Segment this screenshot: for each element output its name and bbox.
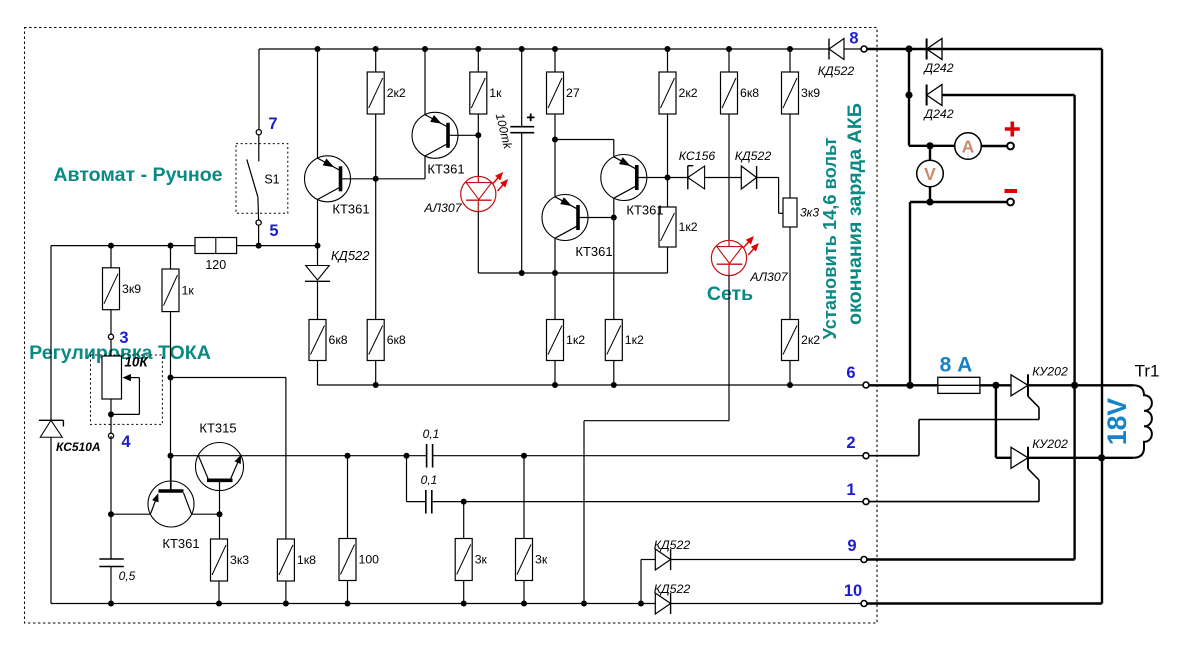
- wire cap to mid bus: [521, 133, 523, 273]
- svg-text:КД522: КД522: [818, 64, 855, 78]
- junction: [168, 375, 174, 381]
- node 9 terminal: [861, 557, 867, 563]
- wire minus rail down to fuse row: [909, 202, 911, 385]
- junction: [581, 601, 587, 607]
- node 4 terminal: [108, 433, 113, 438]
- wire LED to ground jog: [728, 276, 730, 421]
- junction: [926, 198, 933, 205]
- wire down to lower cap: [406, 456, 408, 502]
- svg-text:КТ361: КТ361: [626, 203, 663, 218]
- svg-text:7: 7: [268, 115, 277, 133]
- wire mid bus: [478, 272, 667, 274]
- svg-text:8: 8: [849, 30, 858, 48]
- LED АЛ307 charge indicator: [461, 176, 496, 211]
- junction: [345, 453, 351, 459]
- wire thyristor 2 cathode to transformer bottom: [1028, 457, 1133, 459]
- wire lower cap to terminal 1: [432, 501, 863, 503]
- resistor 1к2 mid: [667, 178, 669, 208]
- wire terminal 8 to rectifier node: [867, 48, 1102, 50]
- junction: [315, 46, 321, 52]
- junction: [1098, 454, 1105, 461]
- svg-text:2к2: 2к2: [679, 86, 698, 100]
- svg-text:5: 5: [269, 222, 278, 240]
- capacitor 100mk polarized: [510, 126, 534, 128]
- wire top rail to terminal 10: [1101, 49, 1103, 604]
- node 10 terminal: [861, 601, 867, 607]
- svg-text:КУ202: КУ202: [1032, 437, 1068, 451]
- junction: [552, 270, 558, 276]
- wire 1к to Q2 base junction: [477, 114, 479, 135]
- junction: [926, 142, 933, 149]
- potentiometer 10К: [91, 355, 163, 424]
- wire gate 1 to terminal 2: [919, 419, 1039, 421]
- resistor 3к9: [103, 268, 120, 310]
- junction: [217, 511, 223, 517]
- junction: [521, 453, 527, 459]
- junction: [108, 601, 114, 607]
- svg-text:2: 2: [846, 434, 855, 452]
- svg-text:КТ315: КТ315: [199, 421, 236, 436]
- wire cap to terminal 2: [433, 455, 863, 457]
- wire Q2 collector elbow: [376, 178, 425, 180]
- junction: [638, 601, 644, 607]
- svg-text:2к2: 2к2: [801, 333, 820, 347]
- svg-text:3к: 3к: [535, 553, 548, 567]
- wire top bus to terminal 8: [844, 48, 863, 50]
- wire 1к junction to 1к8 column: [171, 377, 286, 379]
- junction: [373, 46, 379, 52]
- junction: [905, 91, 912, 98]
- junction: [665, 46, 671, 52]
- svg-text:100: 100: [359, 553, 380, 567]
- junction: [992, 382, 999, 389]
- junction: [726, 46, 732, 52]
- wire node 5 down to row wire: [258, 225, 260, 245]
- thyristor КУ202 upper: [1011, 375, 1028, 396]
- wire top supply bus: [259, 48, 829, 50]
- switch S1: [236, 144, 288, 214]
- resistor 3к second: [523, 456, 525, 539]
- zener КС156: [687, 166, 689, 190]
- junction: [283, 601, 289, 607]
- resistor 120: [195, 238, 237, 254]
- transformer Tr1 secondary winding: [1133, 385, 1152, 458]
- svg-text:1к2: 1к2: [566, 333, 585, 347]
- transistor Q4 КТ361: [601, 155, 647, 201]
- junction: [905, 45, 912, 52]
- svg-text:Установить 14,6 вольт: Установить 14,6 вольт: [819, 137, 840, 339]
- node 3 terminal: [108, 334, 113, 339]
- capacitor C 0,5: [110, 514, 112, 559]
- wire Q1 emitter down: [317, 200, 319, 266]
- junction: [906, 382, 913, 389]
- svg-text:КС510А: КС510А: [56, 440, 101, 454]
- junction: [461, 601, 467, 607]
- wire to 1к: [170, 246, 172, 269]
- svg-text:3: 3: [119, 329, 128, 347]
- junction: [519, 46, 525, 52]
- svg-text:АЛ307: АЛ307: [423, 201, 462, 215]
- trimmer 3к3: [783, 198, 797, 227]
- node 5 terminal: [256, 220, 261, 225]
- svg-text:КТ361: КТ361: [427, 162, 464, 177]
- svg-text:2к2: 2к2: [387, 86, 406, 100]
- svg-text:0,5: 0,5: [119, 569, 136, 583]
- capacitor C 0,1 lower: [425, 490, 427, 514]
- wire rail to terminal 9: [1073, 385, 1075, 559]
- wire 120 to switch junction: [237, 245, 318, 247]
- svg-text:6к8: 6к8: [329, 333, 348, 347]
- svg-text:18V: 18V: [1102, 398, 1132, 445]
- svg-text:КД522: КД522: [735, 149, 772, 163]
- junction: [519, 270, 525, 276]
- svg-text:4: 4: [121, 433, 131, 451]
- node 2 terminal: [863, 453, 869, 459]
- svg-text:КТ361: КТ361: [332, 202, 369, 217]
- wire to transformer top: [1075, 384, 1133, 386]
- transistor Q2 КТ361: [412, 112, 458, 158]
- resistor 1к: [162, 269, 179, 312]
- junction: [373, 382, 379, 388]
- resistor 1к second: [477, 49, 479, 72]
- wire terminal 6 bus: [318, 384, 864, 386]
- svg-text:S1: S1: [264, 173, 279, 187]
- junction: [108, 511, 114, 517]
- wire cathode node down to ammeter row: [908, 95, 910, 146]
- svg-text:КД522: КД522: [654, 582, 691, 596]
- wire Q5 collector to КТ315 base: [192, 513, 220, 515]
- junction: [422, 46, 428, 52]
- wire 6к8 to bus: [317, 361, 319, 386]
- wire 27 to junction: [554, 114, 556, 140]
- svg-text:КС156: КС156: [679, 149, 716, 163]
- junction: [1071, 382, 1078, 389]
- wire 3к9 to node 3: [110, 310, 112, 334]
- svg-text:6к8: 6к8: [387, 333, 406, 347]
- svg-text:КТ361: КТ361: [162, 536, 199, 551]
- wire 2к2 to bus 6: [789, 361, 791, 386]
- svg-text:1к8: 1к8: [297, 553, 316, 567]
- svg-text:3к3: 3к3: [800, 206, 819, 220]
- resistor 1к2 lower second: [605, 320, 622, 361]
- transistor Q1 КТ361: [305, 156, 351, 202]
- wire rectifier vertical: [908, 49, 910, 95]
- resistor 6к8 first: [309, 320, 326, 361]
- wire terminal 2 row: [407, 455, 427, 457]
- wire 27 junction down to Q3: [554, 140, 556, 197]
- minus output wire: [910, 201, 1007, 203]
- svg-text:120: 120: [205, 258, 226, 272]
- svg-text:3к9: 3к9: [122, 282, 141, 296]
- thyristor КУ202 lower: [1011, 447, 1028, 468]
- svg-text:1: 1: [846, 481, 855, 499]
- junction: [552, 382, 558, 388]
- minus output terminal: [1007, 199, 1014, 206]
- wire 3к9 to trimmer: [789, 114, 791, 198]
- junction: [552, 137, 558, 143]
- junction: [552, 46, 558, 52]
- svg-text:1к2: 1к2: [679, 220, 698, 234]
- wire gate 2 to terminal 1: [869, 501, 1039, 503]
- node 6 terminal: [863, 382, 869, 388]
- transistor Q3 КТ361: [542, 195, 588, 241]
- svg-text:1к: 1к: [489, 86, 502, 100]
- svg-text:окончания заряда АКБ: окончания заряда АКБ: [844, 103, 866, 325]
- svg-text:КД522: КД522: [654, 538, 691, 552]
- svg-text:3к3: 3к3: [230, 553, 249, 567]
- wire Q4 rail down to 1к2: [613, 198, 615, 319]
- wire diode to terminal 9: [671, 559, 861, 561]
- svg-text:9: 9: [847, 537, 856, 555]
- junction: [108, 411, 114, 417]
- plus output terminal: [1007, 143, 1014, 150]
- wire pot to wiper junction: [110, 399, 112, 414]
- wire left row: [51, 245, 195, 247]
- junction: [665, 175, 671, 181]
- wire 1к2 to mid bus: [667, 247, 669, 273]
- wire 2к2 to diode row junction: [667, 114, 669, 178]
- wire 6к8 down to LED: [728, 114, 730, 241]
- svg-text:Сеть: Сеть: [707, 283, 753, 305]
- wire to node 4: [110, 414, 112, 433]
- svg-text:V: V: [924, 164, 936, 184]
- svg-text:3к9: 3к9: [801, 86, 820, 100]
- wire switch to node 5: [257, 197, 260, 220]
- svg-text:КУ202: КУ202: [1032, 365, 1068, 379]
- resistor 3к3: [211, 539, 228, 581]
- diode КД522 at terminal 8: [829, 39, 844, 60]
- svg-text:1к: 1к: [182, 283, 195, 297]
- svg-text:27: 27: [566, 86, 580, 100]
- wire diode to 6к8: [317, 281, 319, 319]
- junction: [168, 243, 174, 249]
- wire bus to cap: [521, 49, 523, 127]
- diode Д242 lower: [927, 85, 942, 106]
- wire node 3 to potentiometer: [110, 340, 112, 356]
- wire thyristor 1 cathode to rail: [1028, 384, 1075, 386]
- junction: [475, 132, 481, 138]
- resistor 27: [554, 49, 556, 72]
- wire left column down: [50, 246, 52, 421]
- svg-text:Автомат - Ручное: Автомат - Ручное: [53, 164, 222, 186]
- wire КТ315 base junction to 3к3: [219, 514, 221, 539]
- svg-text:КТ361: КТ361: [575, 244, 612, 259]
- junction: [611, 215, 617, 221]
- resistor 2к2 second: [667, 49, 669, 72]
- voltmeter V: [917, 160, 944, 187]
- wire Q3 emitter to mid bus: [554, 238, 556, 273]
- svg-text:1к2: 1к2: [625, 333, 644, 347]
- wire zener to bottom bus: [50, 437, 52, 603]
- wire fuse to thyristor node: [980, 384, 1011, 386]
- wire Д242 lower to right rail: [942, 94, 1075, 96]
- dashed enclosure border of control unit: [25, 28, 878, 624]
- junction: [216, 601, 222, 607]
- svg-text:Д242: Д242: [922, 61, 953, 75]
- transistor Q5 КТ361: [148, 481, 194, 527]
- resistor 3к9 top: [789, 49, 791, 72]
- zener diode КС510А: [39, 419, 64, 421]
- wire node 4 column to Q5 emitter: [110, 436, 112, 514]
- node 8 terminal: [861, 46, 867, 52]
- wire diode to terminal 10: [671, 603, 861, 605]
- diode Д242 upper: [927, 39, 942, 60]
- svg-text:0,1: 0,1: [423, 427, 440, 441]
- resistor 100: [347, 456, 349, 539]
- wire bottom ground bus: [51, 603, 655, 605]
- wire LED to mid bus: [477, 212, 479, 274]
- ammeter A: [955, 133, 982, 160]
- wire terminal 6 to fuse: [869, 384, 938, 386]
- wire 1к down to T-junctions: [170, 312, 172, 491]
- svg-text:АЛ307: АЛ307: [749, 270, 788, 284]
- svg-text:3к: 3к: [475, 553, 488, 567]
- junction: [404, 453, 410, 459]
- svg-text:10: 10: [844, 582, 862, 600]
- svg-text:Tr1: Tr1: [1135, 362, 1160, 381]
- diode КД522 terminal 10: [655, 593, 670, 614]
- diode КД522 to ground leg: [306, 266, 330, 281]
- resistor 2к2 first: [375, 49, 377, 72]
- junction: [461, 499, 467, 505]
- svg-text:КД522: КД522: [331, 248, 370, 263]
- junction: [373, 176, 379, 182]
- svg-text:А: А: [962, 137, 975, 157]
- wire trimmer to 2к2: [789, 227, 791, 320]
- wire switch column from top bus: [258, 49, 260, 130]
- svg-text:6к8: 6к8: [740, 86, 759, 100]
- junction: [787, 382, 793, 388]
- wire between diodes: [705, 177, 742, 179]
- junction: [521, 601, 527, 607]
- junction: [168, 453, 174, 459]
- svg-text:0,1: 0,1: [421, 473, 438, 487]
- junction: [475, 46, 481, 52]
- diode КД522 row: [741, 166, 756, 189]
- svg-text:Д242: Д242: [922, 107, 953, 121]
- node 7 terminal: [256, 130, 261, 135]
- resistor 2к2 third: [782, 320, 799, 361]
- wire to LED: [477, 135, 479, 176]
- wire top bus to Q2: [424, 49, 426, 115]
- junction: [315, 243, 321, 249]
- junction: [256, 243, 262, 249]
- LED АЛ307 mains indicator: [711, 240, 746, 275]
- wire base junction to 6к8 second: [375, 179, 377, 320]
- resistor 1к8: [277, 539, 294, 581]
- wire 2к2 to base junction: [375, 114, 377, 179]
- svg-text:8 А: 8 А: [940, 354, 973, 377]
- resistor 6к8 third: [728, 49, 730, 72]
- wire collector row to cap / terminal 2 row: [171, 455, 407, 457]
- wire to 3к9: [110, 246, 112, 268]
- wire top bus to Q1: [317, 49, 319, 158]
- resistor 3к first: [463, 502, 465, 539]
- resistor 1к2 lower first: [547, 320, 564, 361]
- svg-text:10К: 10К: [124, 355, 149, 370]
- wire diode to trimmer tap: [757, 177, 779, 179]
- junction: [787, 46, 793, 52]
- junction: [345, 601, 351, 607]
- wire to zener КС156: [668, 177, 688, 179]
- junction: [611, 382, 617, 388]
- wire branch to terminal 9: [640, 560, 642, 604]
- wire anode drop to thyristor 2: [995, 385, 997, 458]
- wire junction to Q4 rail: [555, 139, 614, 141]
- resistor 6к8 second: [367, 320, 384, 361]
- transistor КТ315: [196, 443, 244, 491]
- node 1 terminal: [863, 499, 869, 505]
- junction: [108, 243, 114, 249]
- svg-text:6: 6: [846, 364, 855, 382]
- diode КД522 terminal 9: [655, 549, 670, 570]
- capacitor C 0,1 upper: [426, 444, 428, 468]
